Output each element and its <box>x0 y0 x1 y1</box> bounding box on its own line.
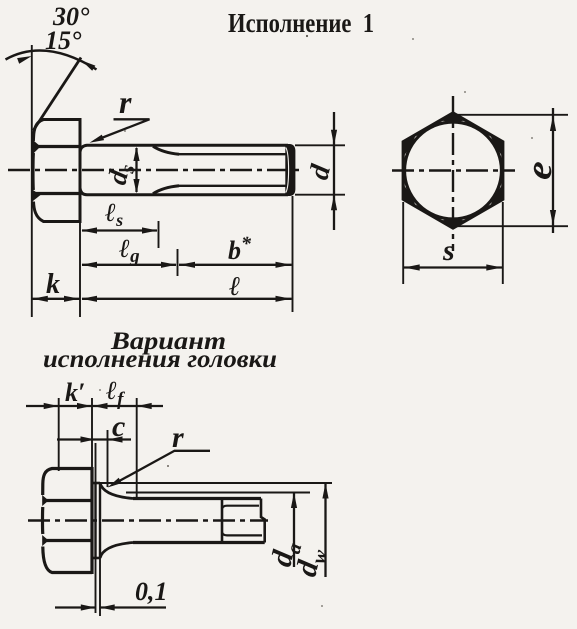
fillet radius arrowhead (variant) <box>108 478 122 488</box>
scan speckle 1 <box>306 35 308 37</box>
dw arrowhead <box>322 483 328 499</box>
centerline of bolt axis (variant view) <box>28 519 268 522</box>
lg left arrowhead <box>82 262 98 268</box>
k-prime outside-left arrowhead <box>44 403 59 409</box>
head face extension line <box>79 223 81 317</box>
s extension line left <box>402 202 404 284</box>
l right arrowhead <box>276 296 292 302</box>
washer face top edge <box>92 482 100 485</box>
fillet radius arrowhead <box>90 135 105 143</box>
variant shank top edge <box>133 497 261 500</box>
ls dimension line <box>82 229 157 231</box>
l left arrowhead <box>82 296 98 302</box>
thread minor bottom line (variant) <box>222 532 262 535</box>
svg-text:15°: 15° <box>45 26 82 55</box>
hex corner chamfer wedge upper-right <box>490 134 503 156</box>
scan speckle 6 <box>99 389 101 391</box>
inscribed chamfer circle <box>405 122 502 219</box>
svg-text:r: r <box>172 421 184 454</box>
thread runout curve bottom <box>153 186 179 194</box>
hex corner chamfer wedge lower-left <box>403 184 416 206</box>
head face extension line (variant) <box>91 398 93 467</box>
k-prime right arrowhead <box>77 403 92 409</box>
da extension line <box>126 492 310 494</box>
dw extension line <box>100 482 332 484</box>
scan speckle 3 <box>124 130 126 132</box>
s left arrowhead <box>404 264 420 270</box>
c outside-right arrowhead <box>108 436 123 442</box>
da dimension arrow line <box>293 493 295 568</box>
svg-text:исполнения головки: исполнения головки <box>43 346 277 373</box>
variant head top division line <box>46 499 92 502</box>
hex corner chamfer wedge lower-right <box>490 184 503 206</box>
hexagon outline (head end view) <box>403 113 503 228</box>
head top face division line <box>36 145 80 148</box>
ls left arrowhead <box>82 227 98 233</box>
head chamfer wedge lower <box>32 190 40 202</box>
vertical reference line for chamfer angle <box>31 45 33 317</box>
dw dimension arrow line <box>324 483 326 577</box>
angle arc left arrowhead <box>17 56 32 64</box>
thread minor diameter top line <box>178 153 286 155</box>
d upper arrowhead <box>331 130 337 146</box>
lf right extension line <box>136 398 138 499</box>
k left arrowhead <box>32 296 48 302</box>
s dimension line <box>404 266 502 268</box>
s right arrowhead <box>486 264 502 270</box>
variant head bottom division line <box>46 539 92 542</box>
e dimension line <box>552 108 554 233</box>
variant shank bottom edge <box>133 541 265 544</box>
svg-text:c: c <box>112 410 125 443</box>
b* left arrowhead <box>180 262 196 268</box>
svg-text:0,1: 0,1 <box>135 577 168 606</box>
angle arc right arrowhead <box>82 61 96 71</box>
hex view horizontal centerline <box>392 169 515 171</box>
scan speckle 5 <box>464 91 466 93</box>
lg right arrowhead <box>161 262 177 268</box>
lf left arrowhead <box>93 403 108 409</box>
fillet radius leader line <box>95 119 150 140</box>
washer face front edge <box>94 483 96 558</box>
washer face extension below rear <box>99 558 101 616</box>
k-prime left extension line <box>58 398 60 471</box>
angle dimension arc <box>6 51 97 70</box>
thread start line (variant) <box>221 499 224 543</box>
hex corner chamfer wedge upper-left <box>403 134 416 156</box>
k right arrowhead <box>64 296 80 302</box>
0.1 right arrowhead <box>100 604 115 610</box>
e upper arrowhead <box>550 116 556 132</box>
d extension bottom line <box>295 194 345 196</box>
b* dimension line <box>179 264 292 266</box>
scan speckle 7 <box>321 605 323 607</box>
scan speckle 2 <box>412 38 414 40</box>
shank bottom edge with under-head fillet <box>80 188 288 195</box>
scan speckle 4 <box>167 465 169 467</box>
d extension top line <box>295 144 345 146</box>
0.1 dimension line right <box>100 606 166 608</box>
da arrowhead <box>291 493 297 509</box>
e extension line bottom <box>450 225 568 227</box>
scan speckle 8 <box>531 137 533 139</box>
svg-text:s: s <box>442 234 455 267</box>
ds lower arrowhead <box>133 179 139 194</box>
hex corner chamfer wedge top <box>440 113 466 121</box>
svg-text:r: r <box>119 84 132 120</box>
lg dimension line <box>82 264 176 266</box>
thread minor diameter bottom line <box>178 185 286 187</box>
break line at shaft end <box>261 499 265 543</box>
bolt end extension line <box>292 196 294 312</box>
e extension line top <box>450 114 568 116</box>
under-head fillet bottom (variant) <box>100 543 133 559</box>
hex view vertical centerline <box>452 96 454 251</box>
thread runout curve top <box>153 146 179 154</box>
d lower arrowhead <box>331 195 337 211</box>
variant head chamfer wedge upper <box>42 495 48 506</box>
c right extension line <box>107 430 109 487</box>
0.1 left arrowhead <box>81 604 96 610</box>
ds upper arrowhead <box>133 147 139 162</box>
s extension line right <box>502 202 504 284</box>
bolt tip chamfered end face <box>285 144 295 196</box>
variant head outline <box>43 467 93 574</box>
washer face rear edge <box>99 483 101 558</box>
washer face extension below front <box>95 558 97 613</box>
k-prime dimension line <box>26 405 95 407</box>
lf dimension line <box>95 405 163 407</box>
svg-text:Исполнение 1: Исполнение 1 <box>228 8 374 38</box>
washer face bottom edge <box>92 557 100 560</box>
d dimension line <box>333 112 335 230</box>
bolt head outline (side view) <box>33 118 80 223</box>
under-head fillet top (variant) <box>100 483 133 499</box>
hex corner chamfer wedge bottom <box>440 220 466 228</box>
ds dimension arrow line <box>135 148 137 192</box>
svg-text:ℓ: ℓ <box>229 271 241 301</box>
lf outside-right arrowhead <box>137 403 152 409</box>
k dimension line <box>32 298 80 300</box>
c outside-left arrowhead <box>81 436 96 442</box>
fillet radius leader (variant) <box>112 451 210 485</box>
lg end extension line <box>177 249 179 276</box>
30-degree chamfer slant line <box>33 58 81 131</box>
0.1 dimension line left <box>55 606 96 608</box>
thread minor top line (variant) <box>222 506 259 509</box>
head bottom face division line <box>36 192 80 195</box>
c left extension line <box>95 443 97 483</box>
ls end extension tick <box>158 221 160 248</box>
c dimension line <box>57 438 131 440</box>
svg-text:k: k <box>46 269 60 300</box>
ls right arrowhead <box>142 227 158 233</box>
e lower arrowhead <box>550 210 556 226</box>
shank top edge with under-head fillet <box>80 145 288 152</box>
svg-text:k′: k′ <box>65 378 85 407</box>
variant head chamfer wedge lower <box>42 535 48 546</box>
centerline of bolt axis (top view) <box>8 169 303 172</box>
b* right arrowhead <box>276 262 292 268</box>
head chamfer wedge upper <box>32 140 40 155</box>
l dimension line <box>82 298 292 300</box>
